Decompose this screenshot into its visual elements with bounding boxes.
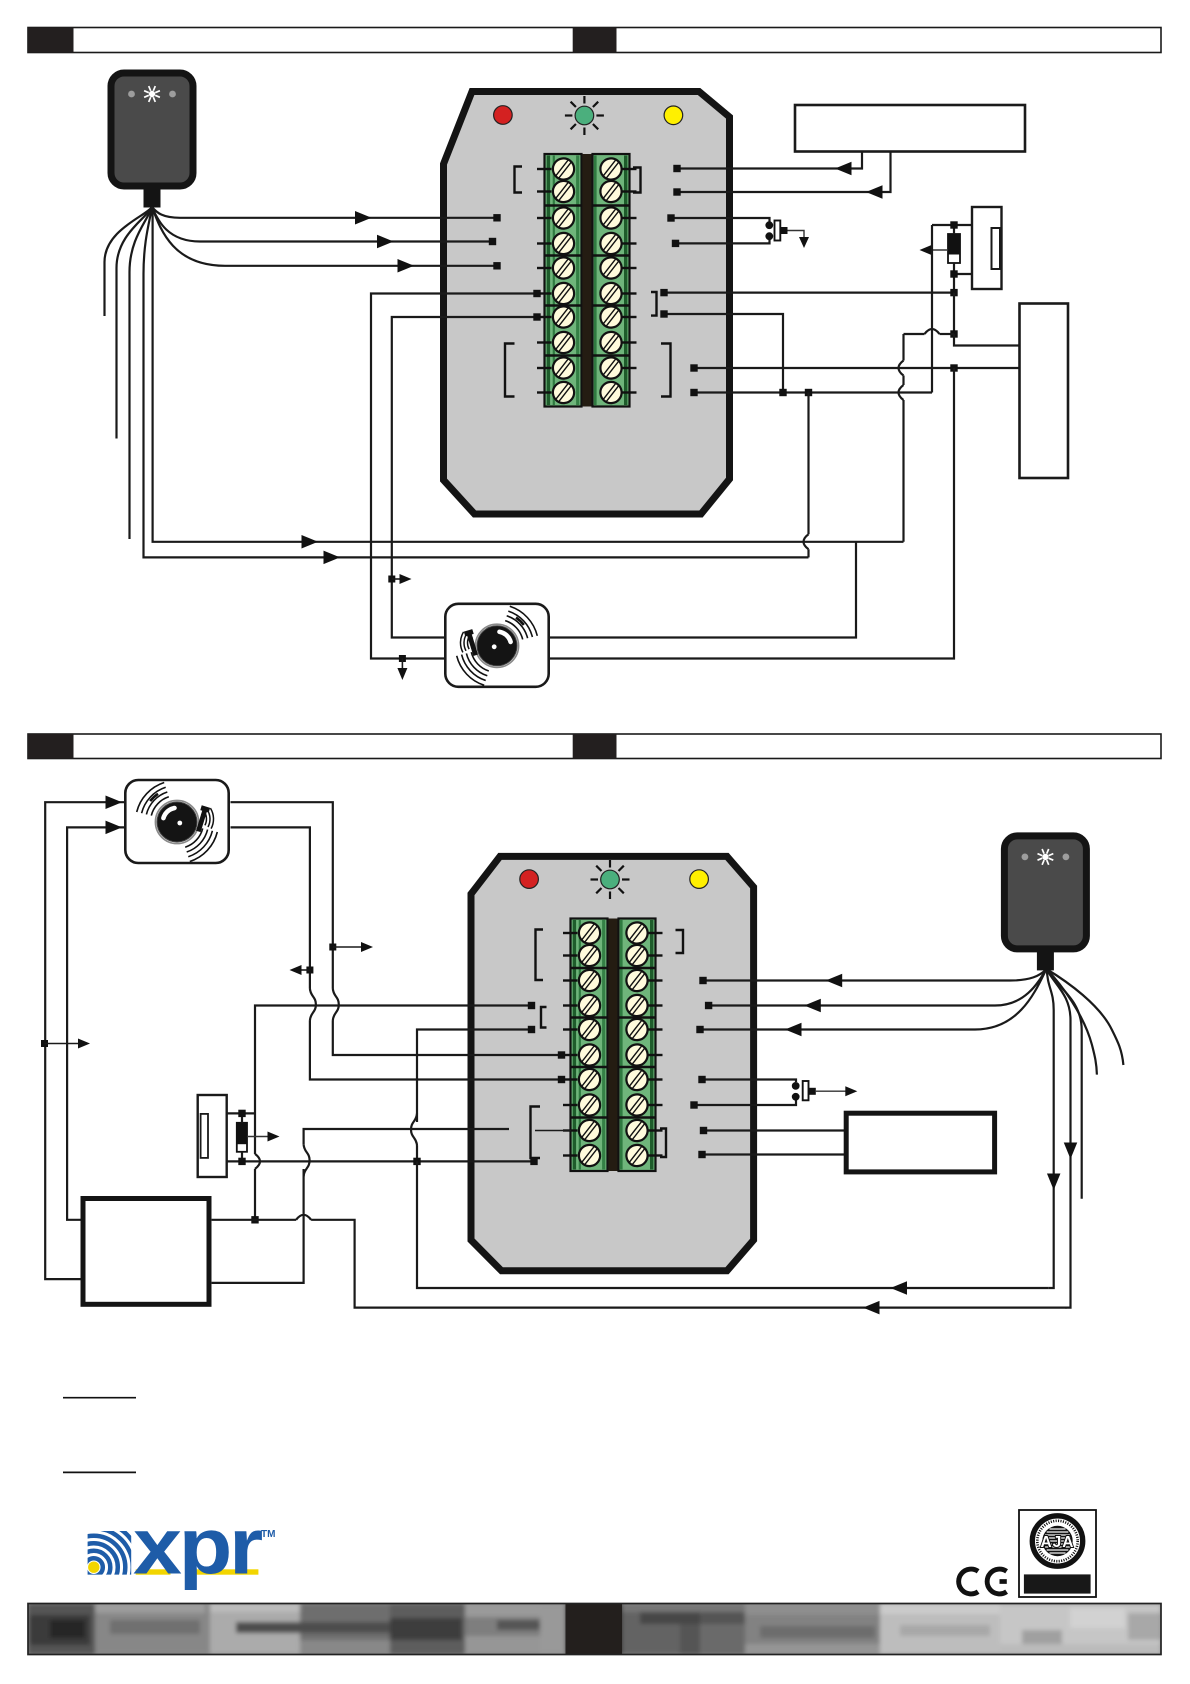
terminal block CU2 section divider	[570, 1016, 608, 1019]
bell BELL1 housing	[445, 604, 548, 687]
reader RDR1 left LED dot	[128, 91, 135, 98]
terminal CU2 row 9 right tick	[649, 1129, 663, 1131]
terminal CU2 row 5 screw left	[575, 1015, 605, 1045]
junction x954 y334	[950, 330, 957, 337]
bell BELL1 sound arc bold	[516, 618, 524, 625]
CE mark letter C	[959, 1569, 978, 1594]
annotation arrow left	[298, 969, 310, 971]
wire door contact top terminal	[227, 1112, 255, 1114]
terminal block CU1 middle gap	[582, 154, 592, 407]
terminal block CU2 right column	[619, 919, 656, 1172]
terminal CU2 row 4 screw right	[622, 991, 652, 1021]
bracket CU2 lower-left rows8-10	[531, 1107, 541, 1159]
bell BELL2 sound arc lower	[187, 830, 208, 852]
bracket CU1 right rows1-2	[633, 168, 641, 193]
terminal block CU2 section divider	[570, 967, 608, 970]
terminal CU2 row 2 left tick	[563, 954, 578, 956]
terminal block CU1 section divider	[544, 354, 582, 357]
push button PB2 action arrow	[816, 1090, 848, 1092]
bell BELL1 highlight	[500, 632, 511, 642]
terminal CU1 row 9 right tick	[623, 367, 637, 369]
wire CU2 row8 right to push button PB2	[694, 1101, 796, 1106]
push button PB2 bar	[803, 1081, 809, 1100]
terminal CU1 row 5 left tick	[537, 267, 552, 269]
stub square CU1 row6 right	[660, 289, 667, 296]
arrowhead on RDR1-row5 wire	[398, 259, 415, 273]
junction row7/row10	[779, 389, 786, 396]
terminal CU1 row 2 right tick	[623, 190, 637, 192]
terminal CU1 row 3 left tick	[537, 217, 552, 219]
vertical net segment x954	[953, 293, 955, 334]
wire diode D1 vertical	[953, 225, 955, 234]
terminal CU1 row 10 left tick	[537, 391, 552, 393]
AJA certification logo box	[1019, 1510, 1096, 1597]
wire CU1 row7 left to bell upper-left	[392, 317, 537, 638]
bell BELL2 sound arc lower	[188, 831, 212, 857]
terminal CU2 row 10 screw right	[622, 1141, 652, 1171]
terminal CU2 row 9 left tick	[563, 1129, 578, 1131]
bell BELL1 clapper vibration arc	[471, 638, 472, 648]
wire CU2 row4 left to door contact top	[255, 1006, 532, 1155]
header bar top left black block	[28, 28, 74, 53]
terminal CU2 row 2 right tick	[649, 954, 663, 956]
terminal CU1 row 6 right tick	[623, 292, 637, 294]
terminal CU1 row 3 screw left	[549, 203, 579, 233]
terminal CU1 row 2 left tick	[537, 190, 552, 192]
stub square CU2 row9 right	[700, 1127, 707, 1134]
terminal CU2 row 3 screw right	[622, 966, 652, 996]
push button PB2 actuator	[809, 1088, 816, 1095]
bell BELL1 clapper vibration arc	[464, 634, 467, 651]
wire relay K1 bottom lead	[954, 273, 972, 275]
wire CU2 row7 right to push button PB2	[702, 1080, 796, 1083]
terminal CU2 row 10 right tick	[649, 1154, 663, 1156]
terminal CU1 row 9 left tick	[537, 367, 552, 369]
arrowhead on RDR1-row4 wire	[377, 235, 394, 249]
wire CU1 row6 right to diode/lock net	[664, 292, 954, 294]
terminal CU2 row 7 screw right	[622, 1065, 652, 1095]
terminal CU1 row 3 screw right	[596, 203, 626, 233]
AJA seal outer ring	[1032, 1516, 1082, 1566]
bell BELL1 sound arc upper	[510, 606, 538, 636]
power supply box PSU1	[795, 105, 1025, 152]
terminal CU1 row 8 screw right	[596, 328, 626, 358]
bell BELL1 sound arc upper	[505, 621, 523, 640]
bell BELL2 clapper vibration arc	[210, 808, 213, 829]
terminal block CU1 section divider	[544, 204, 582, 207]
wire PSU1 to CU1 row1 right	[677, 152, 862, 169]
arrowhead on PSU1-row2 wire	[866, 185, 883, 199]
relay box K1	[972, 207, 1002, 289]
xpr logo yellow dot	[88, 1562, 99, 1573]
bell BELL2 sound arc upper	[151, 797, 169, 816]
wire RDR1 to CU1 row4 (left)	[152, 207, 493, 242]
stub square CU2 row4 left	[528, 1002, 535, 1009]
power wire right of PSU2	[212, 1219, 297, 1221]
terminal block CU2 section divider	[570, 1116, 608, 1119]
wire RDR2 to CU2 row4 right	[709, 969, 1047, 1006]
arrowhead into bell2 upper-left	[106, 795, 123, 809]
terminal CU1 row 4 screw left	[549, 229, 579, 259]
terminal CU2 row 4 left tick	[563, 1004, 578, 1006]
terminal CU2 row 1 screw right	[622, 918, 652, 948]
xpr logo yellow underline right	[192, 1569, 259, 1574]
stub square CU1 row1 right	[673, 165, 680, 172]
wire bell2 lower-right to CU2 row7 left	[231, 827, 310, 988]
thin link to row9 terminal	[535, 1130, 571, 1132]
note underline 1	[63, 1397, 136, 1399]
arrowhead on lower horizontal 1	[302, 535, 319, 549]
terminal CU1 row 7 screw right	[596, 302, 626, 332]
terminal CU2 row 4 screw left	[575, 991, 605, 1021]
terminal CU2 row 3 left tick	[563, 979, 578, 981]
bell BELL1 clapper	[464, 629, 480, 656]
header bar middle	[28, 734, 1161, 759]
terminal CU1 row 1 right tick	[623, 168, 637, 170]
bell BELL2 sound arc upper	[142, 787, 166, 813]
RDR2 unused wire 4	[1046, 969, 1097, 1075]
terminal CU1 row 4 left tick	[537, 242, 552, 244]
RDR1 unused wire 3	[130, 207, 153, 539]
wire RDR1 to CU1 row5 (left)	[152, 207, 497, 266]
terminal CU1 row 2 screw left	[549, 177, 579, 207]
terminal CU1 row 5 screw left	[549, 253, 579, 283]
terminal CU1 row 10 screw right	[596, 378, 626, 408]
bracket CU1 left rows1-2	[515, 167, 523, 193]
wire RDR2 to CU2 row3 right	[703, 969, 1046, 981]
wire CU2 row10 right to lock L2	[702, 1153, 846, 1155]
terminal CU2 row 5 right tick	[649, 1028, 663, 1030]
arrowhead down on RDR2 wire 1	[1047, 1174, 1061, 1191]
reader RDR2 left LED dot	[1022, 854, 1029, 861]
stub square CU1 row7 left	[533, 313, 540, 320]
stub square CU2 row10 right	[698, 1151, 705, 1158]
terminal CU1 row 6 left tick	[537, 292, 552, 294]
terminal CU2 row 2 screw right	[622, 941, 652, 971]
AJA seal inner globe	[1042, 1526, 1072, 1556]
terminal block CU1 section divider	[544, 304, 582, 307]
RDR2 unused wire 3	[1046, 969, 1081, 1199]
reader RDR2 right LED dot	[1063, 854, 1070, 861]
terminal CU1 row 5 right tick	[623, 267, 637, 269]
control unit CU1 green LED with rays	[596, 114, 604, 116]
control unit CU1 body	[444, 92, 730, 515]
bell BELL2 sound arc upper	[146, 792, 167, 814]
terminal CU2 row 8 left tick	[563, 1104, 578, 1106]
wire to lock L1 upper terminal	[954, 334, 1020, 346]
terminal CU2 row 7 left tick	[563, 1078, 578, 1080]
terminal CU1 row 8 screw left	[549, 328, 579, 358]
arrowhead on RDR2-row3 wire	[826, 974, 843, 988]
junction row6-diode	[950, 289, 957, 296]
terminal CU1 row 8 left tick	[537, 341, 552, 343]
header bar top middle black block	[573, 28, 617, 53]
stub square CU2 row4 right	[705, 1002, 712, 1009]
control unit CU2 red LED	[520, 870, 539, 889]
terminal CU1 row 5 screw right	[596, 253, 626, 283]
resistor R1 leads	[241, 1116, 243, 1123]
stub square CU1 row7 right	[660, 310, 667, 317]
photo strip black block crisp	[566, 1604, 623, 1655]
terminal CU2 row 6 right tick	[649, 1054, 663, 1056]
junction square with arrow on left wire	[41, 1040, 48, 1047]
terminal CU1 row 1 screw right	[596, 154, 626, 184]
terminal CU2 row 3 screw left	[575, 966, 605, 996]
bracket CU1 lower-right rows9-10	[661, 344, 671, 397]
wire CU1 row4 right to push button PB1	[676, 240, 770, 244]
resistor R1 annotation arrow	[247, 1136, 270, 1138]
bell BELL1 sound arc lower	[462, 655, 486, 681]
bell BELL1 gong	[475, 624, 518, 667]
control unit CU2 yellow LED	[690, 870, 709, 889]
terminal CU2 row 7 right tick	[649, 1078, 663, 1080]
vertical x932 up to relay K1	[931, 225, 933, 393]
junction square with arrow on row7 wire	[388, 576, 395, 583]
svg-text:xpr: xpr	[133, 1502, 262, 1591]
RDR2 wire down to bottom horizontal 2	[1046, 969, 1070, 1308]
wire CU1 row3 right to push button PB1	[671, 218, 770, 222]
stub square CU2 row7 left	[558, 1076, 565, 1083]
terminal CU2 row 9 screw left	[575, 1116, 605, 1146]
arrowhead on bottom horizontal 1	[891, 1281, 908, 1295]
bell BELL2 clapper vibration arc	[207, 810, 210, 827]
horizontal y334 with hop over x932	[904, 333, 925, 335]
bell BELL2 sound arc upper	[137, 783, 165, 813]
bracket CU2 right rows9-10	[660, 1129, 666, 1158]
junction row9 to bell branch	[950, 364, 957, 371]
wire junction down to bottom horizontal 1	[417, 1161, 1049, 1288]
wire bell2 upper-right to CU2 row6 left	[231, 802, 333, 988]
junction row4/power wire	[251, 1216, 258, 1223]
reader RDR1 right LED dot	[169, 91, 176, 98]
control unit CU1 red LED	[494, 106, 513, 125]
terminal block CU1 section divider	[544, 254, 582, 257]
terminal CU2 row 4 right tick	[649, 1004, 663, 1006]
door contact DC1 box	[198, 1095, 227, 1177]
terminal CU1 row 6 screw right	[596, 279, 626, 309]
wire CU1 row10 right	[694, 391, 932, 393]
reader RDR2 cable connector	[1037, 952, 1054, 971]
terminal block CU2 left column	[571, 919, 608, 1172]
diode D1 body	[948, 234, 960, 263]
stub square CU1 row3 right	[667, 214, 674, 221]
photo strip border	[28, 1604, 1161, 1655]
photo strip background	[0, 0, 1, 1]
door contact DC1 inner bar	[201, 1114, 208, 1158]
bell BELL2 highlight	[163, 808, 174, 818]
push button PB1 bar	[775, 221, 781, 241]
push button PB2 contact dots	[792, 1082, 800, 1090]
stub square CU2 row5 left	[528, 1026, 535, 1033]
control unit CU2 body	[471, 856, 754, 1270]
wire RDR2 to CU2 row5 right	[700, 969, 1046, 1030]
terminal CU1 row 9 screw left	[549, 353, 579, 383]
terminal block CU1 left column	[545, 154, 582, 407]
resistor R1 body	[237, 1123, 247, 1152]
svg-text:TM: TM	[261, 1529, 275, 1540]
bell BELL1 sound arc upper	[507, 616, 528, 638]
AJA black banner	[1024, 1574, 1091, 1593]
stub square CU1 row6 left	[533, 290, 540, 297]
stub square CU1 row9 right	[690, 364, 697, 371]
bell BELL2 sound arc lower	[185, 828, 203, 847]
arrowhead on RDR1-row3 wire	[355, 211, 372, 225]
terminal CU1 row 7 screw left	[549, 302, 579, 332]
bell BELL2 housing	[125, 780, 228, 863]
bell BELL2 gong	[155, 800, 198, 843]
vertical x808.5 with hop	[807, 393, 809, 535]
bracket CU2 left rows1-3	[536, 930, 544, 981]
RDR2 wire down to bottom horizontal 1	[1046, 969, 1053, 1288]
RDR1 unused wire 1	[105, 207, 153, 316]
terminal CU2 row 7 screw left	[575, 1065, 605, 1095]
wire CU2 row5 left down to junction	[417, 1030, 532, 1123]
RDR1 unused wire 2	[117, 207, 153, 439]
terminal CU2 row 1 right tick	[649, 932, 663, 934]
junction diode bottom	[950, 270, 957, 277]
relay K1 inner contact bar	[992, 228, 1001, 269]
stub square CU1 row5 left	[493, 262, 500, 269]
terminal CU2 row 5 screw right	[622, 1015, 652, 1045]
photo strip patches	[28, 1604, 95, 1655]
stub square CU2 row7 right	[698, 1076, 705, 1083]
lock box L2	[846, 1113, 994, 1172]
push button PB1 contact dots	[765, 221, 773, 229]
terminal CU1 row 4 screw right	[596, 229, 626, 259]
arrowhead on bottom horizontal 2	[863, 1301, 880, 1315]
stub square CU1 row2 right	[673, 188, 680, 195]
terminal CU1 row 9 screw right	[596, 353, 626, 383]
RDR1 wire down to lower horizontal 2	[144, 207, 809, 557]
terminal CU2 row 6 left tick	[563, 1054, 578, 1056]
header bar top	[28, 28, 1161, 53]
terminal CU1 row 8 right tick	[623, 341, 637, 343]
junction diode top	[950, 221, 957, 228]
header bar middle black block	[573, 734, 617, 759]
power supply box PSU2	[83, 1199, 209, 1305]
stub square CU2 row3 right	[699, 977, 706, 984]
bracket CU2 left rows4-5	[541, 1007, 547, 1028]
junction square on bell lower-left wire	[399, 655, 406, 662]
terminal CU2 row 1 left tick	[563, 932, 578, 934]
svg-text:AJA: AJA	[1040, 1534, 1074, 1551]
wire relay K1 top lead	[932, 224, 972, 226]
stub square CU2 row5 right	[696, 1026, 703, 1033]
RDR1 wire down to lower horizontal 1	[153, 207, 904, 542]
bell BELL2 sound arc lower	[190, 832, 218, 862]
RDR2 unused wire 5	[1046, 969, 1123, 1065]
terminal block CU2 section divider	[570, 1066, 608, 1069]
wire bell upper-right to lower horizontal 1	[548, 542, 856, 638]
bell BELL1 clapper vibration arc	[468, 636, 470, 650]
diode D1 polarity arrow	[929, 249, 948, 251]
header bar middle left black block	[28, 734, 74, 759]
arrowhead on PSU1-row1 wire	[835, 162, 852, 176]
wire door contact bottom / CU2 row10 left	[227, 1160, 534, 1162]
arrowhead on RDR2-row5 wire	[785, 1023, 802, 1037]
wire CU1 row7 right down to row10 line	[664, 314, 783, 393]
lock box L1	[1020, 304, 1069, 479]
wire CU2 row9 right to lock L2	[704, 1129, 847, 1131]
junction row10 to lower horizontal 2	[805, 389, 812, 396]
terminal CU1 row 3 right tick	[623, 217, 637, 219]
wire CU1 row9 right to lock L1 lower terminal	[694, 367, 1020, 369]
junction resistor bottom	[238, 1158, 245, 1165]
reader RDR1 cable connector	[144, 189, 161, 208]
wire CU2 row9 left from power supply	[212, 1169, 304, 1283]
terminal CU2 row 10 left tick	[563, 1154, 578, 1156]
CE mark letter E	[987, 1569, 1006, 1594]
push button PB1 action arrow	[788, 231, 805, 240]
bell BELL1 sound arc upper	[508, 611, 532, 637]
bracket CU2 right rows1-2	[676, 930, 684, 953]
annotation arrow right at row7 wire	[392, 578, 403, 580]
terminal CU2 row 3 right tick	[649, 979, 663, 981]
terminal CU2 row 8 screw left	[575, 1090, 605, 1120]
stub square CU2 row10 left	[530, 1158, 537, 1165]
proximity reader RDR2 body	[1004, 836, 1086, 949]
xpr logo yellow underline left	[136, 1569, 171, 1574]
bell BELL2 clapper vibration arc	[204, 812, 206, 826]
bell BELL2 clapper	[194, 805, 210, 832]
terminal CU1 row 10 screw left	[549, 378, 579, 408]
terminal CU1 row 7 left tick	[537, 316, 552, 318]
terminal CU2 row 6 screw right	[622, 1040, 652, 1070]
AJA seal text ring (dotted)	[1037, 1521, 1077, 1561]
terminal block CU2 middle gap	[608, 919, 618, 1172]
note underline 2	[63, 1471, 136, 1473]
arrowhead on RDR2-row4 wire	[804, 999, 821, 1013]
terminal CU2 row 8 right tick	[649, 1104, 663, 1106]
stub square CU2 row6 left	[558, 1051, 565, 1058]
terminal CU1 row 2 screw right	[596, 177, 626, 207]
wire RDR1 to CU1 row3 (left)	[152, 207, 497, 218]
bell BELL1 sound arc lower	[466, 653, 487, 675]
wire bell2 upper-left from power supply	[45, 802, 124, 1279]
stub square CU1 row4 left	[489, 238, 496, 245]
bell BELL2 clapper vibration arc	[202, 814, 203, 824]
branch from row9 down to bell lower-right	[548, 368, 954, 659]
terminal CU2 row 6 screw left	[575, 1040, 605, 1070]
arrowhead into bell2 lower-left	[106, 821, 123, 835]
terminal CU2 row 1 screw left	[575, 918, 605, 948]
junction row5/row10/down	[413, 1158, 420, 1165]
stub square CU1 row4 right	[672, 240, 679, 247]
arrowhead on lower horizontal 2	[324, 551, 341, 565]
terminal CU1 row 7 right tick	[623, 316, 637, 318]
push button PB1 actuator	[780, 227, 787, 234]
vertical x903.5 with hops	[902, 334, 904, 361]
control unit CU2 green LED with rays	[622, 878, 630, 880]
junction resistor top	[238, 1110, 245, 1117]
bell BELL1 sound arc lower	[471, 652, 489, 671]
annotation arrow right on left wire	[45, 1043, 82, 1045]
arrowhead down on RDR2 wire 2	[1064, 1143, 1078, 1160]
junction square with arrow on bell2 row7 wire	[306, 967, 313, 974]
terminal CU2 row 8 screw right	[622, 1090, 652, 1120]
terminal CU1 row 1 left tick	[537, 168, 552, 170]
stub square CU1 row10 right	[690, 389, 697, 396]
photo strip smudge details	[30, 1615, 90, 1645]
reader RDR1 center sunburst	[155, 95, 160, 97]
stub square CU1 row3 left	[493, 214, 500, 221]
wire bell2 lower-left from power supply	[67, 827, 124, 1219]
control unit CU1 yellow LED	[664, 106, 683, 125]
wire CU1 row6 left to bell lower-left	[371, 294, 537, 659]
terminal CU1 row 10 right tick	[623, 391, 637, 393]
stub square CU2 row8 right	[690, 1101, 697, 1108]
junction square with arrow on bell2 row6 wire	[329, 944, 336, 951]
